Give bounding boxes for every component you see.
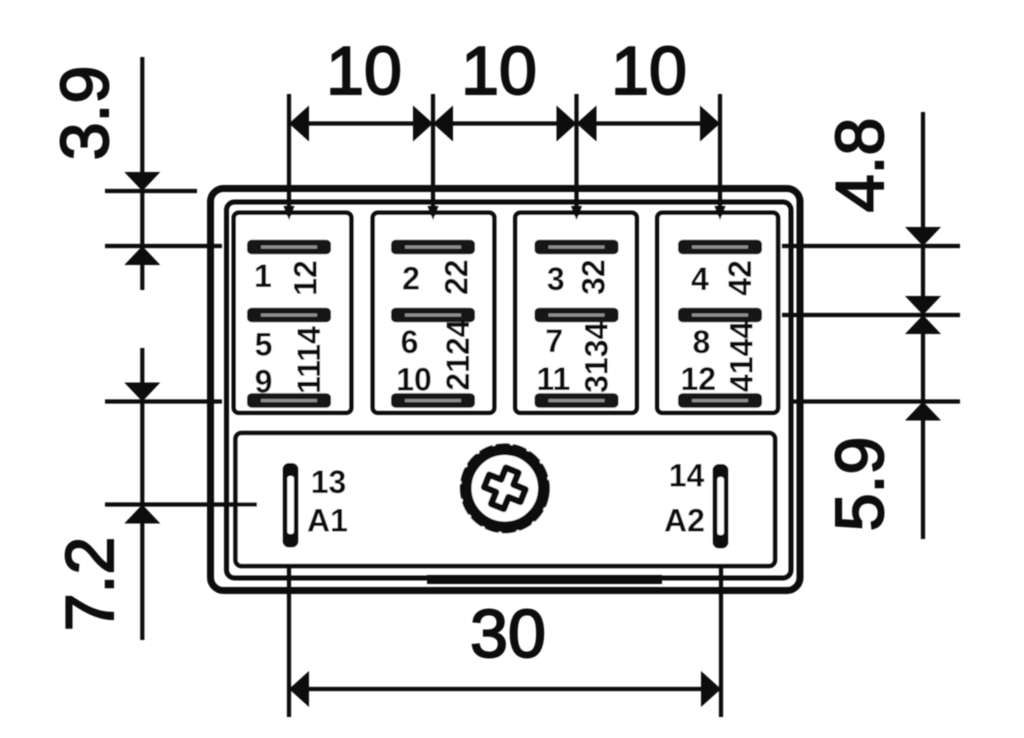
pin group box 2 — [373, 213, 495, 413]
svg-text:12: 12 — [288, 260, 324, 296]
top ext arrowhead 3 — [571, 206, 582, 220]
svg-text:7.2: 7.2 — [52, 537, 128, 632]
contact slot pin7 — [535, 308, 619, 323]
svg-text:30: 30 — [470, 596, 546, 672]
coil slot A1 — [283, 463, 299, 548]
svg-text:6: 6 — [401, 324, 419, 360]
arrow left at 289 — [289, 106, 309, 142]
pin group box 1 — [234, 213, 352, 413]
top ext arrowhead 4 — [715, 206, 726, 220]
tick y504.5 — [105, 502, 257, 506]
arrow right at 721 bottom — [701, 671, 721, 707]
svg-text:5.9: 5.9 — [822, 437, 898, 532]
arrow up to y401.5 right — [905, 402, 941, 421]
svg-text:A1: A1 — [307, 503, 348, 539]
svg-text:12: 12 — [681, 361, 717, 397]
svg-text:1: 1 — [254, 258, 272, 294]
bowtie arrows at 576.5 — [557, 106, 577, 142]
svg-text:3: 3 — [547, 261, 565, 297]
top extension line x289 — [287, 94, 291, 216]
contact slot pin5 — [247, 308, 331, 323]
pin group box 3 — [515, 213, 637, 413]
svg-text:8: 8 — [693, 324, 711, 360]
top extension line x433 — [431, 94, 435, 216]
bottom dimension line 30 — [289, 687, 721, 691]
tick y191 — [105, 189, 197, 193]
top ext arrowhead 2 — [428, 206, 439, 220]
coil slot A2 — [713, 464, 729, 549]
svg-text:2124: 2124 — [440, 319, 476, 390]
bottom latch tab mark — [427, 575, 662, 584]
contact slot pin2 — [391, 240, 475, 255]
tick y401.5 right — [789, 399, 960, 403]
arrow down to y401.5 — [124, 383, 160, 402]
contact slot pin10 — [391, 393, 475, 408]
arrow left at 289 bottom — [289, 671, 309, 707]
right dimension line — [921, 112, 925, 539]
pin group box 4 — [657, 213, 778, 413]
svg-text:11: 11 — [536, 361, 570, 397]
bottom extension line x289 — [287, 566, 291, 717]
top ext arrowhead 1 — [284, 206, 295, 220]
contact slot pin1 — [247, 240, 331, 255]
contact slot pin4 — [678, 240, 762, 255]
bottom extension line x721 — [719, 566, 723, 717]
svg-text:10: 10 — [611, 33, 687, 109]
contact slot pin11 — [535, 393, 619, 408]
svg-text:14: 14 — [669, 458, 705, 494]
svg-text:4144: 4144 — [724, 321, 760, 392]
arrow down to y246 right — [905, 227, 941, 246]
tick y246 right — [782, 244, 960, 248]
bowtie at y315 right — [905, 296, 941, 315]
contact slot pin3 — [535, 240, 619, 255]
left dimension line upper (3.9) — [140, 57, 144, 290]
svg-text:42: 42 — [722, 260, 758, 296]
svg-text:32: 32 — [576, 259, 612, 295]
svg-text:3.9: 3.9 — [47, 66, 123, 161]
relay body inner border line — [227, 202, 792, 578]
arrow down to y191 — [124, 172, 160, 191]
svg-text:10: 10 — [461, 33, 537, 109]
svg-text:10: 10 — [326, 33, 402, 109]
tick y401.5 — [105, 399, 222, 403]
tick y315 right — [782, 313, 960, 317]
left dimension line lower (7.2) — [140, 348, 144, 640]
svg-text:10: 10 — [396, 361, 432, 397]
svg-text:1114: 1114 — [291, 326, 327, 394]
top extension line x720 — [718, 94, 722, 216]
svg-text:9: 9 — [255, 364, 273, 400]
arrow up to y246 — [124, 246, 160, 265]
svg-text:22: 22 — [439, 259, 475, 295]
arrow up to y504.5 — [124, 505, 160, 524]
arrow right at 720 — [700, 106, 720, 142]
contact slot pin12 — [678, 393, 762, 408]
contact slot pin6 — [391, 308, 475, 323]
svg-text:2: 2 — [402, 261, 420, 297]
svg-text:3134: 3134 — [579, 322, 615, 393]
screw head — [455, 439, 554, 538]
svg-text:4.8: 4.8 — [822, 118, 898, 213]
contact slot pin8 — [678, 308, 762, 323]
svg-text:7: 7 — [545, 323, 563, 359]
svg-text:13: 13 — [311, 464, 347, 500]
tick y246 — [105, 244, 222, 248]
top dimension line — [289, 121, 720, 125]
bowtie arrows at 433 — [413, 106, 433, 142]
svg-text:4: 4 — [691, 261, 709, 297]
contact slot pin9 — [247, 393, 331, 408]
bottom compartment box — [236, 433, 776, 566]
top extension line x576.5 — [574, 94, 578, 216]
svg-text:5: 5 — [255, 327, 273, 363]
relay body outer border — [211, 189, 801, 591]
svg-text:A2: A2 — [664, 503, 705, 539]
